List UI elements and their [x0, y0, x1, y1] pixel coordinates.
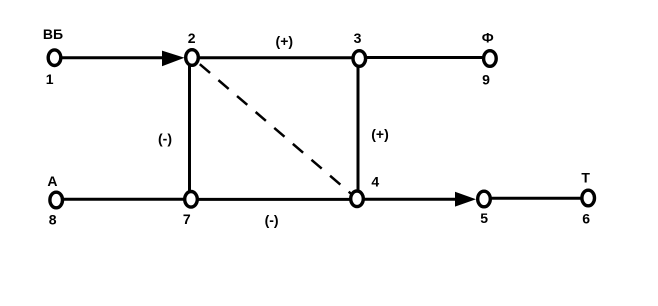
svg-text:4: 4 [371, 174, 379, 190]
svg-text:7: 7 [183, 211, 191, 227]
svg-text:Т: Т [581, 170, 590, 186]
node 6 circle [582, 190, 595, 206]
dashed diagonal node2 to node4 [200, 64, 357, 199]
wire node1 to arrowhead [55, 56, 166, 59]
wire node7 to node4 [191, 198, 357, 201]
node 2 circle [186, 50, 199, 66]
node 8 circle [50, 192, 63, 208]
node 7 circle [185, 192, 198, 208]
svg-text:(-): (-) [265, 212, 279, 228]
svg-text:3: 3 [354, 30, 362, 46]
svg-text:А: А [47, 173, 57, 189]
node 4 circle [351, 191, 364, 207]
node 9 circle [484, 51, 497, 67]
wire node3 to node4 (right vertical) [357, 58, 360, 199]
node 5 circle [478, 191, 491, 207]
svg-text:5: 5 [480, 210, 488, 226]
svg-text:6: 6 [582, 211, 590, 227]
wire node5 to node6 [484, 197, 588, 200]
svg-text:Ф: Ф [482, 30, 494, 46]
wire node4 to arrowhead [357, 198, 458, 201]
wire node3 to node9 [359, 56, 490, 59]
svg-text:1: 1 [46, 71, 54, 87]
svg-text:(+): (+) [371, 126, 389, 142]
svg-text:2: 2 [188, 30, 196, 46]
node 1 circle [48, 50, 61, 66]
svg-text:8: 8 [49, 212, 57, 228]
svg-text:ВБ: ВБ [43, 26, 63, 42]
arrowhead into node 2 [162, 51, 185, 67]
arrowhead into node 5 [455, 192, 476, 207]
wire node2 to node3 [192, 56, 359, 59]
svg-text:9: 9 [482, 72, 490, 88]
node 3 circle [353, 51, 366, 67]
svg-text:(-): (-) [158, 131, 172, 147]
wire node8 to node7 [56, 198, 191, 201]
wire node2 to node7 (left vertical) [188, 58, 191, 200]
svg-text:(+): (+) [276, 33, 294, 49]
